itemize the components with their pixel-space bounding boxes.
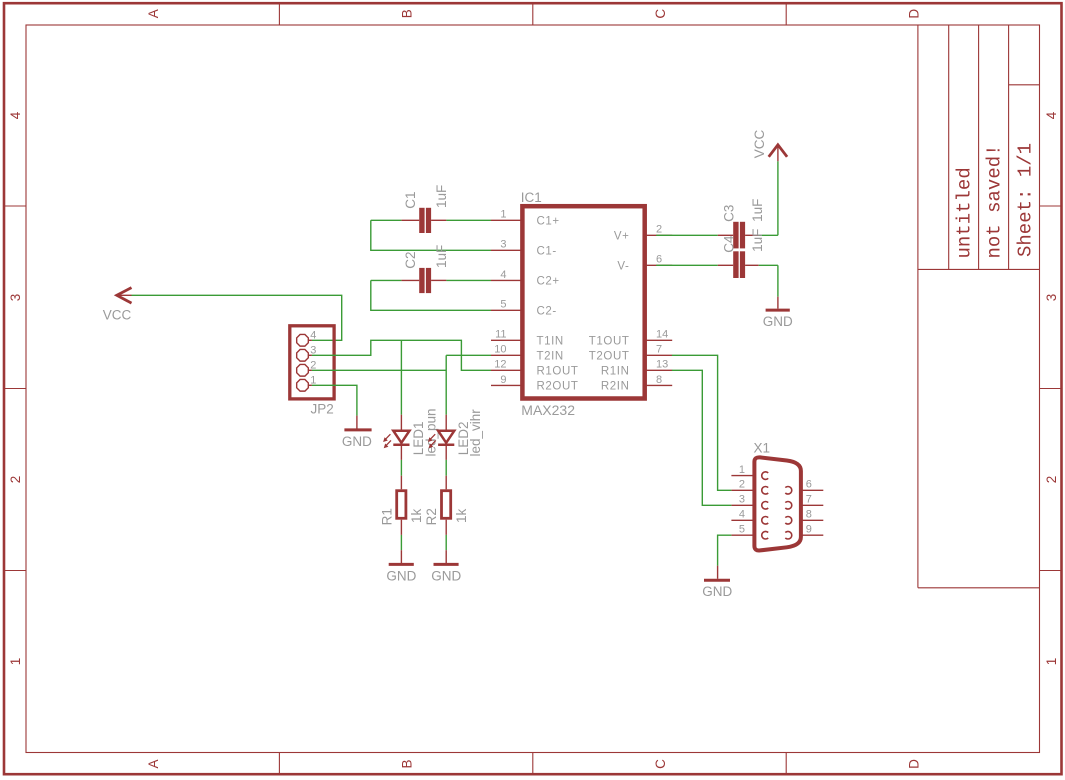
svg-text:VCC: VCC	[103, 308, 132, 323]
svg-text:T2IN: T2IN	[537, 351, 564, 363]
svg-text:2: 2	[1044, 476, 1059, 484]
wire LED1 to R1	[400, 460, 402, 476]
svg-text:4: 4	[500, 269, 506, 281]
svg-text:3: 3	[1044, 294, 1059, 302]
X1 pin 1	[731, 475, 753, 477]
svg-text:3: 3	[500, 239, 506, 251]
IC1 pin 13 R1IN	[645, 369, 673, 371]
X1 pin 8	[803, 519, 824, 521]
wire R1 to ground	[400, 535, 402, 550]
X1 pin 3	[731, 504, 753, 506]
svg-text:4: 4	[8, 111, 23, 119]
svg-text:R2OUT: R2OUT	[537, 381, 579, 393]
svg-text:GND: GND	[386, 568, 416, 583]
svg-text:7: 7	[806, 494, 812, 506]
svg-text:8: 8	[806, 509, 812, 521]
resistor R2	[445, 476, 447, 490]
X1 pin 9	[803, 534, 824, 536]
svg-text:3: 3	[739, 494, 745, 506]
svg-text:1: 1	[1044, 658, 1059, 666]
svg-text:T1OUT: T1OUT	[589, 336, 630, 348]
svg-text:C: C	[653, 9, 668, 19]
svg-text:C: C	[653, 759, 668, 769]
IC1 pin 3 C1-	[491, 249, 522, 251]
IC1 pin 10 T2IN	[491, 354, 522, 356]
JP2 pin circle 1	[297, 379, 309, 391]
svg-text:11: 11	[495, 329, 506, 341]
IC1 pin 12 R1OUT	[491, 369, 522, 371]
svg-text:8: 8	[656, 374, 662, 386]
svg-text:GND: GND	[702, 584, 732, 599]
svg-text:V-: V-	[617, 261, 629, 273]
svg-text:C1-: C1-	[537, 246, 557, 258]
wire LED2 to R2	[445, 460, 447, 476]
JP2 pin circle 3	[297, 349, 309, 361]
svg-text:4: 4	[310, 329, 316, 341]
svg-text:R1OUT: R1OUT	[537, 366, 579, 378]
LED LED2	[445, 415, 447, 430]
svg-text:GND: GND	[431, 568, 461, 583]
svg-text:1: 1	[8, 658, 23, 666]
wire JP2 pin 2 to LED2 net	[312, 369, 446, 371]
svg-text:1: 1	[739, 464, 745, 476]
X1 pin 6	[803, 489, 824, 491]
svg-text:1uF: 1uF	[434, 185, 449, 208]
svg-text:D: D	[906, 9, 921, 19]
JP2 pin circle 4	[297, 334, 309, 346]
ground GND under X1	[717, 566, 719, 579]
svg-text:led_pun: led_pun	[423, 408, 438, 456]
svg-text:1: 1	[500, 209, 506, 221]
wire C3 to VCC	[759, 234, 778, 236]
svg-text:2: 2	[739, 479, 745, 491]
svg-text:1uF: 1uF	[434, 245, 449, 268]
svg-text:MAX232: MAX232	[521, 402, 575, 418]
svg-text:A: A	[146, 759, 161, 768]
svg-text:C1: C1	[403, 191, 418, 208]
wire IC1 pin 6 to C4	[656, 264, 718, 266]
svg-text:2: 2	[310, 359, 316, 371]
IC1 pin 7 T2OUT	[645, 354, 673, 356]
svg-text:JP2: JP2	[311, 402, 334, 417]
svg-text:13: 13	[656, 359, 668, 371]
title block	[917, 25, 919, 588]
svg-text:R2: R2	[424, 508, 439, 525]
svg-text:3: 3	[8, 294, 23, 302]
svg-text:X1: X1	[754, 441, 771, 456]
wire C1 to IC1 pin 1	[446, 219, 491, 221]
IC1 pin 2 V+	[645, 234, 673, 236]
svg-text:12: 12	[494, 359, 506, 371]
IC IC1 MAX232 body	[522, 206, 644, 398]
capacitor C2	[419, 268, 424, 293]
wire X1 pin 5 to ground	[718, 535, 732, 566]
IC1 pin 8 R2IN	[645, 384, 673, 386]
X1 pin 4	[731, 519, 753, 521]
svg-text:4: 4	[1044, 111, 1059, 119]
IC1 pin 11 T1IN	[491, 339, 522, 341]
IC1 pin 6 V-	[645, 264, 673, 266]
svg-text:D: D	[906, 759, 921, 769]
svg-text:4: 4	[739, 509, 745, 521]
wire VCC to JP2 pin 4	[132, 295, 342, 340]
svg-text:R2IN: R2IN	[601, 381, 630, 393]
svg-text:14: 14	[656, 329, 668, 341]
svg-text:1k: 1k	[409, 508, 424, 523]
svg-text:B: B	[400, 9, 415, 18]
svg-text:GND: GND	[763, 314, 793, 329]
svg-text:C2-: C2-	[537, 306, 557, 318]
wire R1OUT net branch to LED1	[400, 340, 402, 414]
svg-text:10: 10	[494, 344, 506, 356]
wire IC1 pin 13 R1IN to X1 pin 3	[672, 370, 732, 505]
wire JP2 pin 1 to ground	[312, 385, 357, 415]
svg-text:C3: C3	[721, 205, 736, 222]
wire C2 left to loop	[371, 279, 402, 281]
svg-text:led_vihr: led_vihr	[468, 409, 483, 457]
svg-text:5: 5	[500, 299, 506, 311]
connector JP2	[290, 326, 334, 399]
LED LED1	[400, 415, 402, 430]
svg-text:9: 9	[500, 374, 506, 386]
svg-text:A: A	[146, 9, 161, 18]
svg-text:7: 7	[656, 344, 662, 356]
ground GND under JP2	[356, 416, 358, 429]
svg-text:C2: C2	[403, 252, 418, 269]
svg-text:R1IN: R1IN	[601, 366, 630, 378]
IC1 pin 1 C1+	[491, 219, 522, 221]
capacitor C4	[718, 264, 733, 266]
svg-text:1uF: 1uF	[750, 199, 765, 222]
supply symbol VCC left arrow	[117, 288, 132, 304]
X1 pin 5	[731, 534, 753, 536]
wire C4 to ground	[759, 264, 778, 266]
svg-text:Sheet: 1/1: Sheet: 1/1	[1015, 143, 1037, 257]
wire C2 to IC1 pin 4	[446, 279, 491, 281]
svg-text:6: 6	[806, 479, 812, 491]
wire R2 to ground	[445, 535, 447, 550]
ground GND under R1	[400, 550, 402, 563]
svg-text:6: 6	[656, 254, 662, 266]
svg-text:not saved!: not saved!	[984, 144, 1006, 258]
svg-text:1uF: 1uF	[750, 229, 765, 252]
svg-text:9: 9	[806, 524, 812, 536]
svg-text:C1+: C1+	[537, 216, 560, 228]
IC1 pin 9 R2OUT	[491, 384, 522, 386]
IC1 pin 4 C2+	[491, 279, 522, 281]
svg-text:C4: C4	[721, 235, 736, 253]
svg-text:GND: GND	[342, 434, 372, 449]
svg-text:2: 2	[8, 476, 23, 484]
IC1 pin 14 T1OUT	[645, 339, 673, 341]
capacitor C3	[718, 234, 733, 236]
svg-text:VCC: VCC	[752, 130, 767, 159]
X1 pin 7	[803, 504, 824, 506]
svg-text:V+: V+	[614, 231, 630, 243]
svg-text:T1IN: T1IN	[537, 336, 564, 348]
wire C1 loop to IC1 pin 3	[371, 220, 491, 250]
X1 pin 2	[731, 489, 753, 491]
svg-text:5: 5	[739, 524, 745, 536]
svg-text:B: B	[400, 759, 415, 768]
wire C1 left to loop	[371, 219, 402, 221]
svg-text:1k: 1k	[454, 508, 469, 523]
ground GND under C4	[777, 297, 779, 309]
ground GND under R2	[445, 550, 447, 563]
wire IC1 pin 2 to C3	[656, 234, 718, 236]
svg-text:IC1: IC1	[521, 190, 542, 205]
svg-text:R1: R1	[379, 508, 394, 525]
svg-text:1: 1	[310, 374, 316, 386]
IC1 pin 5 C2-	[491, 309, 522, 311]
wire IC1 pin 7 T2OUT to X1 pin 2	[672, 355, 732, 490]
svg-text:2: 2	[656, 224, 662, 236]
resistor R1	[400, 476, 402, 490]
svg-text:C2+: C2+	[537, 276, 560, 288]
svg-text:untitled: untitled	[954, 167, 976, 258]
wire T2IN net to LED2 and IC1 pin 10	[445, 355, 447, 414]
connector X1 DB9 outline	[754, 457, 801, 550]
JP2 pin circle 2	[297, 364, 309, 376]
wire JP2 pin 3 to IC1 pin 12 R1OUT	[312, 340, 491, 370]
wire C2 loop to IC1 pin 5	[371, 280, 491, 310]
svg-text:T2OUT: T2OUT	[589, 351, 630, 363]
svg-text:3: 3	[310, 344, 316, 356]
supply symbol VCC right arrow	[777, 146, 779, 161]
capacitor C1	[419, 208, 424, 233]
